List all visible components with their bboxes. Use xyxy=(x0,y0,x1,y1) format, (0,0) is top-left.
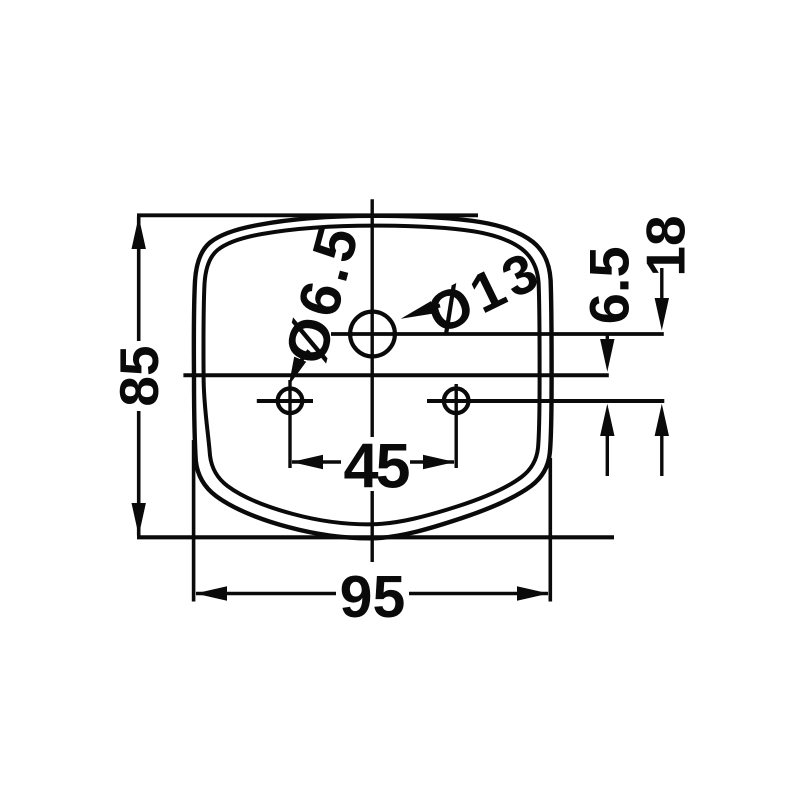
dim 95 arrow right xyxy=(517,586,549,600)
dim 95 left extension line xyxy=(192,440,196,602)
dim 85 arrow up xyxy=(132,217,146,250)
svg-text:95: 95 xyxy=(340,564,406,630)
dim 95 arrow left xyxy=(195,586,227,600)
leader line d6.5 xyxy=(297,351,309,367)
inner body outline xyxy=(203,226,539,525)
dim 6.5 upper arrow shaft stub xyxy=(606,334,609,345)
dim 18 arrow up onto line C xyxy=(655,404,669,436)
horizontal line A through big hole center xyxy=(331,332,664,336)
svg-text:18: 18 xyxy=(635,215,697,276)
dim 85 vertical dimension line xyxy=(137,217,141,342)
dim 45 arrow right xyxy=(423,455,455,469)
dim 6.5 arrow down onto line B xyxy=(600,339,614,372)
dim 45 dimension line xyxy=(292,460,341,464)
horizontal line C left segment through left hole xyxy=(257,399,313,403)
big hole d13 xyxy=(350,312,395,357)
vertical centerline lower segment xyxy=(371,491,374,562)
dim 95 right extension line xyxy=(548,458,552,602)
dim 18 lower arrow shaft xyxy=(660,430,663,476)
horizontal centerline B of body xyxy=(183,373,608,377)
leader line d13 xyxy=(431,306,440,309)
dim 18 upper arrow shaft xyxy=(660,268,663,305)
left small hole d6.5 xyxy=(278,389,303,414)
dim 45 arrow left xyxy=(292,455,324,469)
dim 95 dimension line xyxy=(196,592,336,596)
svg-text:85: 85 xyxy=(108,345,170,406)
dim 85 top extension line xyxy=(137,213,478,217)
svg-text:6.5: 6.5 xyxy=(578,246,641,324)
outer body outline xyxy=(194,216,552,539)
vertical mark / extension through right hole xyxy=(455,384,458,468)
vertical centerline upper segment xyxy=(371,199,374,437)
svg-text:45: 45 xyxy=(343,432,409,502)
horizontal line C right segment through right hole xyxy=(427,399,664,403)
leader arrow d13 xyxy=(401,301,435,319)
dim 6.5 arrow up onto line C xyxy=(600,404,614,436)
dim 85 arrow down xyxy=(132,503,146,536)
dim 85 bottom extension line xyxy=(137,535,614,539)
dim 6.5 lower arrow shaft xyxy=(606,430,609,476)
right small hole d6.5 xyxy=(444,389,469,414)
dim 18 arrow down onto line A xyxy=(655,298,669,331)
leader arrow d6.5 xyxy=(289,357,306,386)
vertical mark / extension through left hole xyxy=(288,380,291,468)
